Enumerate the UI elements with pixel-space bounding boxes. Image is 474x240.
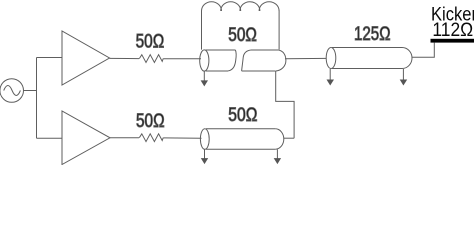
wire T1 output to T2: [285, 57, 326, 59]
coax line T3 (50 ohm bottom): [200, 129, 283, 150]
kicker electrode plate: [431, 39, 474, 43]
wire source to splitter: [24, 90, 37, 92]
svg-text:50Ω: 50Ω: [228, 105, 257, 126]
wire to bottom amplifier input: [37, 137, 63, 139]
wire splitter vertical: [36, 58, 38, 139]
svg-text:112Ω: 112Ω: [432, 20, 473, 41]
resistor R1 50ohm: [139, 55, 163, 63]
coax delay line T1 right section: [242, 50, 286, 71]
wire bottom amp output to R2: [110, 137, 139, 139]
wire T1 shield to inverted line junction (step down): [276, 71, 294, 138]
svg-text:125Ω: 125Ω: [354, 24, 391, 45]
coax delay line T1 left section (50 ohm): [200, 50, 237, 71]
svg-text:50Ω: 50Ω: [136, 31, 165, 52]
svg-text:50Ω: 50Ω: [136, 111, 165, 132]
resistor R2 50ohm: [139, 134, 163, 142]
wire R1 to coax T1: [163, 58, 201, 60]
wire to top amplifier input: [37, 57, 63, 59]
wire T2 output to kicker: [412, 43, 434, 58]
coax line T2 (125 ohm): [326, 48, 412, 69]
wire R2 to coax T3: [163, 137, 201, 139]
inductor L1 (shield choke over T1): [202, 2, 280, 50]
wire T3 output to junction: [284, 137, 294, 139]
ground at T1 left shield: [201, 72, 208, 87]
op-amp A2 (bottom amplifier): [62, 111, 110, 165]
ground at T3 right shield: [274, 150, 281, 165]
ground at T3 left shield: [201, 150, 208, 165]
op-amp A1 (top amplifier): [62, 31, 110, 85]
wire top amp output to R1: [110, 57, 140, 59]
ground at T2 right shield: [400, 69, 408, 86]
ground at T2 left shield: [327, 69, 335, 86]
AC source V1: [0, 79, 24, 103]
svg-text:50Ω: 50Ω: [228, 25, 257, 46]
